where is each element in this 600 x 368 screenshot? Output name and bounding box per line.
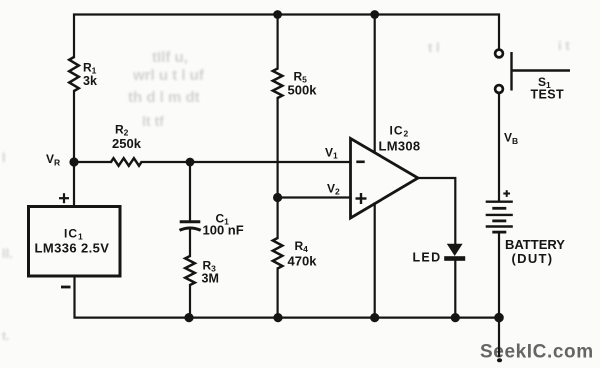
switch S1 actuator bar [512, 52, 571, 91]
svg-text:TEST: TEST [531, 88, 565, 102]
svg-text:(DUT): (DUT) [512, 251, 554, 266]
wire LED cathode to bottom bus [454, 261, 456, 318]
wire op-amp negative supply to bottom bus [374, 204, 376, 318]
wire switch to battery [498, 93, 500, 201]
op-amp U1 triangle IC2 [351, 139, 419, 219]
resistor R1 [69, 57, 79, 91]
svg-text:l: l [2, 150, 6, 165]
svg-text:3M: 3M [202, 271, 219, 285]
node V2 junction [273, 193, 282, 202]
IC1 voltage reference box [29, 207, 121, 277]
wire main horizontal VR to op-amp inverting input [74, 161, 111, 163]
svg-text:3k: 3k [83, 74, 97, 88]
svg-text:100 nF: 100 nF [203, 223, 244, 238]
svg-text:i t: i t [558, 38, 570, 53]
IC1 plus terminal sign [59, 193, 69, 203]
resistor R2 [111, 158, 142, 166]
node top bus junction at op-amp supply [370, 10, 379, 19]
node top bus junction at R5 [273, 10, 282, 19]
svg-text:BATTERY: BATTERY [505, 237, 565, 252]
node bus at LED [451, 313, 460, 322]
wire battery to bottom bus [498, 233, 500, 318]
svg-text:LM336 2.5V: LM336 2.5V [35, 240, 110, 255]
battery B1 (DUT) plates [486, 202, 513, 232]
LED D1 [444, 244, 465, 261]
svg-text:wrl u t l uf: wrl u t l uf [132, 67, 205, 84]
wire left vertical R1 bottom to VR node and IC1 top [73, 91, 75, 207]
op-amp minus input sign [356, 161, 364, 164]
svg-text:LM308: LM308 [379, 138, 421, 153]
svg-text:lt tf: lt tf [142, 113, 164, 129]
wire top bus [74, 15, 499, 58]
node bus at battery [494, 313, 504, 323]
faint print bleed-through smudges [2, 38, 570, 343]
resistor R3 [185, 256, 195, 285]
battery plus sign [503, 190, 510, 197]
node C1 branch junction [186, 158, 195, 167]
node stub end dot [497, 358, 502, 362]
svg-text:LED: LED [413, 250, 442, 264]
switch S1 pushbutton contacts [495, 50, 503, 58]
node VR [69, 157, 78, 166]
resistor R5 [273, 69, 283, 99]
IC1 minus terminal sign [61, 286, 71, 289]
node bus at R4 [273, 313, 282, 322]
svg-text:SeekIC.com: SeekIC.com [480, 342, 594, 363]
wire stub below bus junction [498, 318, 500, 357]
svg-text:250k: 250k [112, 136, 142, 151]
wire op-amp positive supply from top bus [374, 15, 376, 153]
svg-text:470k: 470k [288, 254, 318, 269]
resistor R4 [273, 238, 283, 269]
op-amp plus input sign [356, 193, 367, 204]
wire C1/R3 branch vertical [189, 162, 191, 221]
node bus at op-amp supply [370, 313, 379, 322]
node bus at C1 branch [184, 313, 193, 322]
svg-text:ll.: ll. [2, 246, 13, 261]
svg-text:500k: 500k [288, 83, 318, 98]
wire V2 to op-amp non-inverting input [278, 196, 351, 198]
wire IC1 bottom to bus corner [75, 276, 500, 318]
capacitor C1 [180, 222, 201, 231]
wire R5/R4 vertical [277, 15, 279, 69]
svg-text:tIlf u,: tIlf u, [152, 49, 188, 66]
wire op-amp output to LED [418, 178, 455, 244]
svg-text:th d l m dt: th d l m dt [128, 89, 200, 106]
svg-text:t.: t. [2, 329, 9, 343]
svg-text:t l: t l [428, 40, 440, 55]
